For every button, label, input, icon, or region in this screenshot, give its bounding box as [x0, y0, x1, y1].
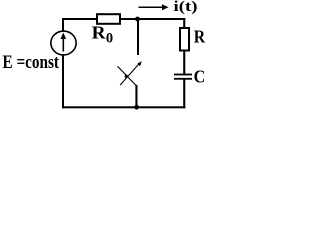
switch pivot dot: [125, 75, 128, 78]
wire right vertical lower: [183, 79, 185, 108]
node junction top: [135, 17, 140, 22]
node junction bottom: [134, 105, 139, 110]
svg-text:0: 0: [106, 30, 113, 46]
wire middle vertical from top junction: [137, 18, 139, 55]
wire left vertical: [62, 18, 64, 108]
svg-text:E =const: E =const: [3, 52, 60, 73]
svg-text:R: R: [92, 23, 107, 43]
capacitor C plates: [174, 74, 192, 80]
wire middle bottom stub: [135, 85, 137, 107]
source arrow: [61, 33, 67, 52]
wire right vertical upper: [183, 18, 185, 75]
resistor R0: [97, 14, 120, 24]
label R0: [92, 23, 113, 47]
wire bottom horizontal: [62, 106, 185, 108]
current arrow i(t): [139, 4, 169, 10]
svg-text:i(t): i(t): [174, 0, 198, 15]
switch actuation arrow: [120, 61, 142, 85]
source E circle: [51, 31, 76, 55]
svg-text:C: C: [194, 67, 206, 87]
wire top horizontal: [62, 18, 185, 20]
switch blade: [118, 66, 137, 85]
resistor R: [180, 28, 189, 51]
svg-text:R: R: [194, 27, 206, 47]
